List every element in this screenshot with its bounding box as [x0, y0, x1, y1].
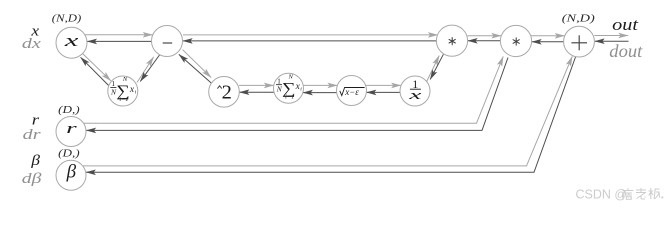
svg-text:(N,D): (N,D) [52, 13, 82, 24]
wire backward dout to plus [595, 40, 629, 42]
svg-text:i=1: i=1 [119, 96, 128, 103]
svg-text:β: β [30, 153, 40, 169]
wire forward plus to out [594, 35, 628, 37]
node mean2 formula [276, 74, 303, 101]
node mul1 circle [436, 25, 467, 56]
wire forward sqrt to reciprocal [366, 84, 401, 86]
wire backward minus to mean [140, 55, 159, 81]
svg-text:i=1: i=1 [285, 94, 294, 101]
node mean2 circle [274, 73, 304, 103]
wire forward r to mul2 [84, 57, 504, 124]
wire backward square to minus [179, 54, 213, 84]
svg-text:dx: dx [22, 36, 41, 52]
node square circle [209, 77, 240, 108]
wire backward plus to beta [86, 57, 576, 172]
svg-text:CSDN @: CSDN @ [576, 188, 628, 202]
wire backward mul1 to reciprocal [430, 54, 443, 79]
wire forward mean2 to sqrt [303, 84, 337, 86]
wire backward sqrt to mean2 [303, 92, 337, 94]
watermark [576, 188, 664, 202]
wire forward reciprocal to mul1 [427, 56, 440, 82]
svg-text:x−ε: x−ε [344, 87, 359, 97]
node r circle [56, 117, 86, 147]
wire backward reciprocal to sqrt [367, 91, 401, 93]
wire backward mean2 to square [240, 91, 275, 93]
svg-text:(D,): (D,) [58, 148, 80, 159]
node mean1 circle [108, 76, 138, 106]
svg-text:2: 2 [222, 82, 232, 104]
svg-text:dout: dout [609, 41, 643, 61]
node sqrt symbol [340, 87, 365, 97]
node square symbol [217, 82, 231, 104]
svg-text:x: x [63, 31, 79, 50]
node plus circle [564, 26, 595, 57]
svg-text:N: N [288, 74, 294, 81]
node sqrt circle [337, 76, 367, 106]
wire backward minus to x [87, 40, 151, 42]
node beta circle [56, 160, 86, 190]
node minus symbol [163, 42, 173, 44]
svg-text:(N,D): (N,D) [562, 14, 596, 25]
wire forward mean to minus [137, 57, 154, 83]
node reciprocal circle [400, 76, 430, 106]
svg-text:dβ: dβ [22, 171, 42, 187]
wire forward square to mean2 [239, 84, 274, 86]
node x circle [56, 27, 87, 58]
node reciprocal symbol [407, 77, 422, 102]
wire forward minus to mul1 [183, 34, 438, 36]
node mul1 symbol [449, 38, 455, 45]
wire forward x to mean [81, 52, 111, 81]
svg-text:x: x [407, 87, 422, 102]
svg-text:N: N [122, 76, 128, 83]
svg-text:r: r [66, 121, 77, 137]
node plus symbol [571, 35, 587, 50]
wire forward mul2 to plus [531, 35, 565, 37]
node mul2 symbol [513, 38, 519, 45]
node mean1 formula [110, 76, 137, 103]
wire backward plus to mul2 [532, 41, 564, 43]
wire forward minus to square [183, 50, 212, 78]
wire backward mean to x [81, 57, 110, 86]
wire forward beta to plus [83, 56, 572, 165]
svg-text:dr: dr [23, 127, 41, 143]
node mul2 circle [500, 25, 531, 56]
node minus circle [152, 26, 183, 57]
wire backward mul1 to minus [183, 40, 437, 42]
wire forward x to minus [85, 34, 153, 36]
svg-text:out: out [612, 15, 639, 34]
wire backward mul2 to mul1 [468, 40, 501, 42]
wire backward mul2 to r [86, 58, 508, 131]
svg-text:(D,): (D,) [58, 105, 80, 116]
svg-text:β: β [66, 161, 77, 182]
wire forward mul1 to mul2 [468, 35, 502, 37]
